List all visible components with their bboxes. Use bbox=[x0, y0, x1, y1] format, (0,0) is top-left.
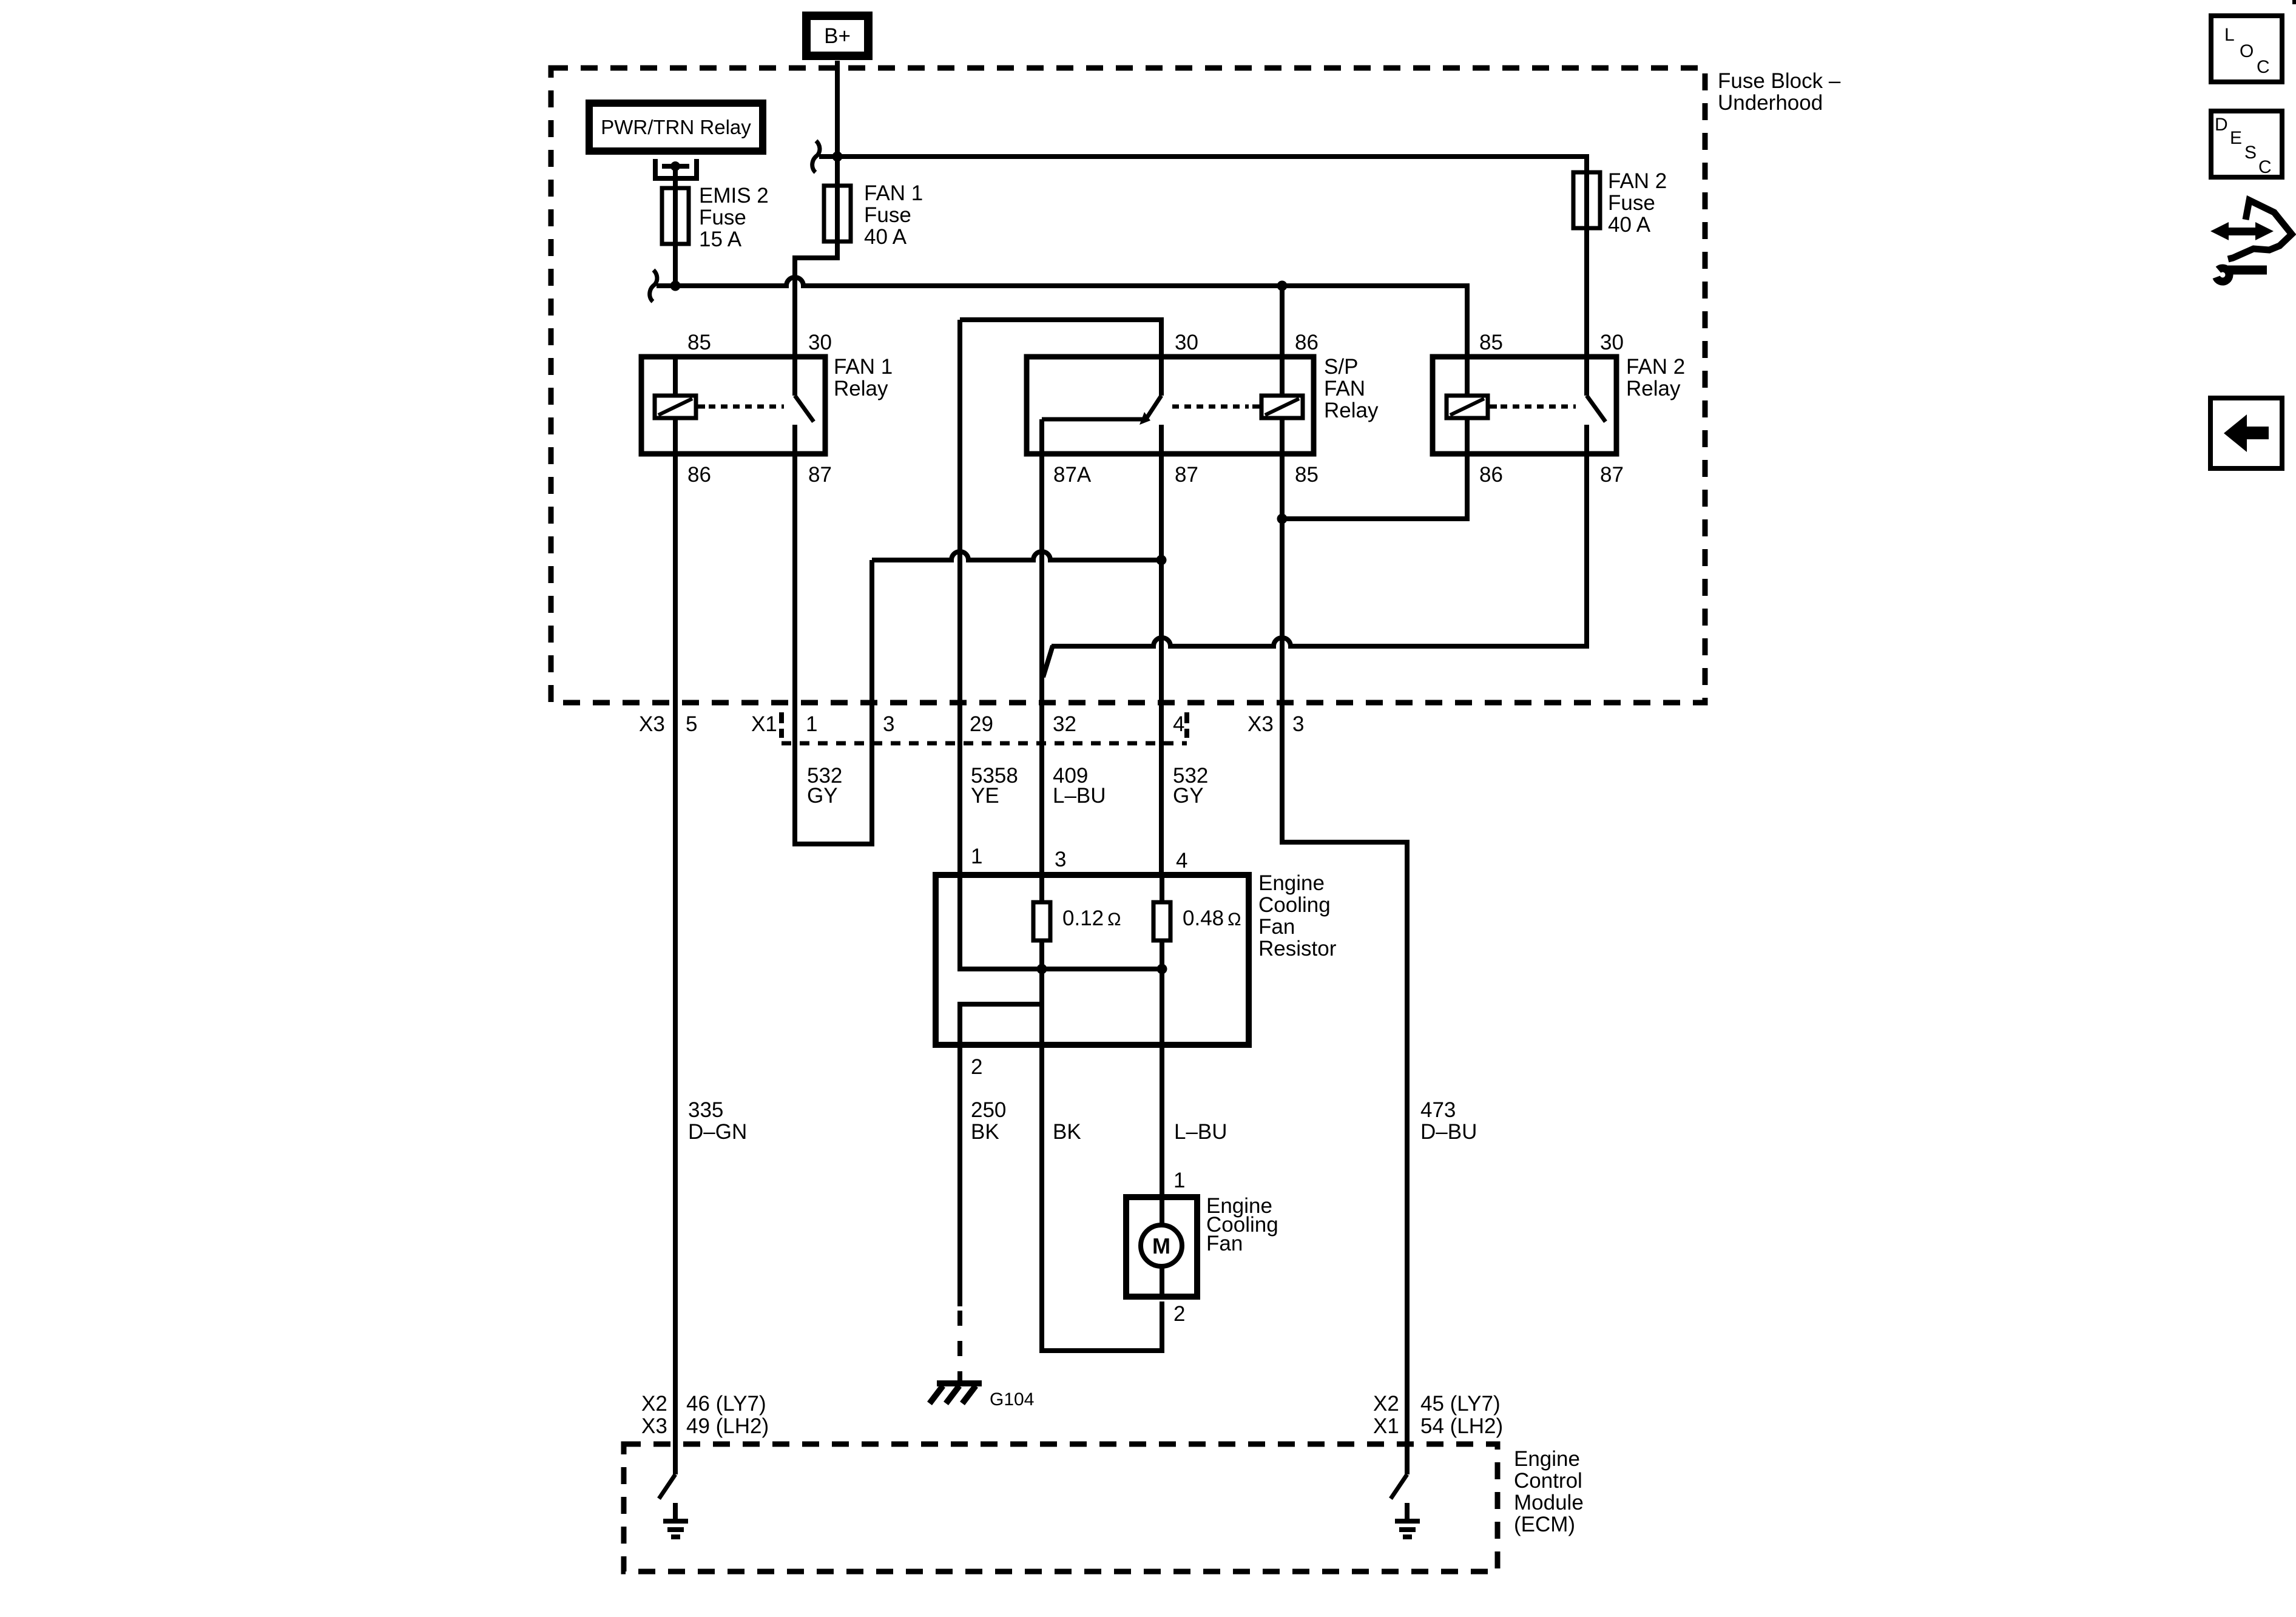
svg-text:87A: 87A bbox=[1053, 463, 1092, 487]
ECM internal switch right bbox=[1391, 1474, 1407, 1499]
label FAN 1 Relay bbox=[834, 355, 893, 400]
svg-text:C: C bbox=[2257, 57, 2270, 77]
pin 30 label S/P FAN relay bbox=[1175, 331, 1198, 354]
wire L-BU resistor pin 4 to fan pin 1 bbox=[1160, 969, 1164, 1224]
pin 1 label resistor bbox=[971, 845, 982, 868]
svg-text:4: 4 bbox=[1176, 849, 1187, 873]
svg-text:Control: Control bbox=[1514, 1469, 1582, 1493]
wire B+ vertical feed bbox=[795, 61, 837, 357]
off-page connector arc at B+ node bbox=[812, 141, 820, 172]
wire S/P 87A / circuit 409 L-BU (pin 32 to resistor pin 3) bbox=[1039, 454, 1044, 875]
wire label 409 L-BU bbox=[1053, 764, 1106, 808]
wire B+ node to FAN 2 fuse bbox=[819, 157, 1587, 357]
relay FAN 1 switch bbox=[795, 357, 814, 454]
relay FAN 1 coil-switch dashed link bbox=[696, 405, 784, 409]
svg-text:1: 1 bbox=[806, 712, 817, 736]
svg-text:3: 3 bbox=[1292, 712, 1304, 736]
label Engine Cooling Fan Resistor bbox=[1258, 871, 1337, 960]
label FAN 2 Relay bbox=[1626, 355, 1685, 400]
page corner mark bbox=[2292, 0, 2296, 4]
svg-text:1: 1 bbox=[1173, 1169, 1185, 1192]
wire label 532 GY (left) bbox=[807, 764, 842, 808]
relay FAN 2 coil bbox=[1447, 357, 1488, 454]
svg-text:X3: X3 bbox=[1248, 712, 1274, 736]
svg-text:30: 30 bbox=[808, 331, 832, 354]
svg-text:(ECM): (ECM) bbox=[1514, 1513, 1575, 1536]
pin 32 label X1 bbox=[1053, 712, 1076, 736]
svg-text:30: 30 bbox=[1175, 331, 1198, 354]
node resistor junction dot pin 4 leg bbox=[1157, 964, 1167, 974]
wire PWR/TRN relay to EMIS 2 fuse to node bbox=[673, 166, 678, 286]
svg-text:D: D bbox=[2215, 115, 2228, 135]
svg-text:FAN 2: FAN 2 bbox=[1608, 169, 1667, 193]
pin 3 label X3 bbox=[1292, 712, 1304, 736]
svg-text:G104: G104 bbox=[990, 1389, 1034, 1409]
pin 86 label FAN 1 relay bbox=[687, 463, 711, 487]
motor M circle bbox=[1141, 1197, 1182, 1297]
pin 87 label FAN 2 relay bbox=[1600, 463, 1624, 487]
connector X1 dashed outline bbox=[782, 712, 1187, 743]
relay FAN 2 coil-switch dashed link bbox=[1488, 405, 1576, 409]
node S/P 87 junction dot bbox=[1156, 555, 1167, 565]
wire S/P FAN relay pin 86 bbox=[1280, 286, 1285, 357]
icon LOC box bbox=[2211, 16, 2282, 82]
svg-text:Fuse Block –: Fuse Block – bbox=[1718, 69, 1841, 93]
node EMIS 2 fuse output dot bbox=[670, 281, 681, 291]
svg-text:2: 2 bbox=[971, 1055, 982, 1079]
svg-text:D–GN: D–GN bbox=[688, 1120, 747, 1144]
ground symbol ECM right bbox=[1395, 1503, 1420, 1537]
svg-text:473: 473 bbox=[1420, 1098, 1456, 1122]
svg-text:4: 4 bbox=[1173, 712, 1184, 736]
off-page connector arc at EMIS 2 node bbox=[650, 270, 657, 302]
fuse EMIS 2 15 A bbox=[662, 184, 769, 251]
icon back arrow box bbox=[2210, 398, 2282, 468]
relay S/P FAN switch with 87A contact bbox=[1042, 357, 1161, 454]
svg-text:Engine: Engine bbox=[1514, 1447, 1580, 1471]
svg-text:BK: BK bbox=[971, 1120, 999, 1144]
wire FAN2 87 horizontal line (hops 532 and X3-3 wires) bbox=[1052, 454, 1587, 646]
PWR/TRN Relay box bbox=[589, 103, 763, 151]
svg-text:X3: X3 bbox=[639, 712, 665, 736]
connector label X1 bbox=[751, 712, 777, 736]
wire EMIS 2 node to FAN 2 relay 85 (hops FAN1-30 wire) bbox=[657, 277, 1467, 357]
svg-text:Fuse: Fuse bbox=[1608, 191, 1655, 215]
node resistor junction dot pin 3 leg bbox=[1037, 964, 1047, 974]
svg-text:250: 250 bbox=[971, 1098, 1006, 1122]
svg-text:2: 2 bbox=[1173, 1302, 1185, 1326]
svg-text:1: 1 bbox=[971, 845, 982, 868]
wire slant branch pin 32 to FAN2 87 line bbox=[1043, 646, 1053, 677]
relay FAN 2 box bbox=[1433, 357, 1616, 454]
svg-text:FAN 1: FAN 1 bbox=[834, 355, 893, 379]
label Engine Cooling Fan bbox=[1206, 1194, 1278, 1255]
wire label 250 BK bbox=[971, 1098, 1006, 1144]
resistor element 0.48 ohm bbox=[1153, 875, 1241, 969]
svg-text:85: 85 bbox=[1479, 331, 1503, 354]
svg-text:M: M bbox=[1152, 1234, 1170, 1258]
pin 85 label FAN 1 relay bbox=[687, 331, 711, 354]
pin 30 label FAN 2 relay bbox=[1600, 331, 1624, 354]
pin 3 label resistor bbox=[1055, 848, 1066, 871]
node S/P FAN relay 86 dot bbox=[1277, 281, 1288, 291]
wire 250 BK resistor pin 2 down bbox=[957, 1045, 962, 1382]
pin 3 label X1 bbox=[883, 712, 894, 736]
fuse FAN 1 40 A bbox=[824, 181, 923, 249]
svg-text:X3: X3 bbox=[641, 1414, 667, 1438]
ground G104 bbox=[930, 1383, 1034, 1409]
svg-text:87: 87 bbox=[1600, 463, 1624, 487]
pin 85 label S/P FAN relay bbox=[1295, 463, 1319, 487]
wire circuit 532 GY horizontal to S/P 87 (hops 29 and 32 wires) bbox=[872, 552, 1161, 560]
Engine Cooling Fan motor box bbox=[1126, 1197, 1197, 1297]
svg-text:3: 3 bbox=[1055, 848, 1066, 871]
svg-text:X2: X2 bbox=[1373, 1392, 1399, 1416]
icon DESC box bbox=[2211, 111, 2282, 177]
svg-text:L–BU: L–BU bbox=[1053, 784, 1106, 808]
resistor internal link to pin 2 bbox=[960, 1004, 1042, 1045]
label S/P FAN Relay bbox=[1324, 355, 1379, 422]
svg-text:86: 86 bbox=[1295, 331, 1319, 354]
svg-text:87: 87 bbox=[1175, 463, 1198, 487]
pin 30 label FAN 1 relay bbox=[808, 331, 832, 354]
svg-text:Fan: Fan bbox=[1258, 915, 1295, 939]
pin 86 label FAN 2 relay bbox=[1479, 463, 1503, 487]
svg-text:X1: X1 bbox=[1373, 1414, 1399, 1438]
power feed B+ box bbox=[806, 16, 868, 56]
svg-text:85: 85 bbox=[1295, 463, 1319, 487]
wire label 532 GY (right) bbox=[1173, 764, 1208, 808]
wire label L-BU bbox=[1174, 1120, 1227, 1144]
wire label 473 D-BU bbox=[1420, 1098, 1477, 1144]
svg-text:32: 32 bbox=[1053, 712, 1076, 736]
pin 2 label resistor bbox=[971, 1055, 982, 1079]
svg-text:Cooling: Cooling bbox=[1258, 893, 1331, 917]
Engine Control Module (ECM) dashed box bbox=[624, 1444, 1497, 1571]
pin 4 label X1 bbox=[1173, 712, 1184, 736]
svg-text:0.48Ω: 0.48Ω bbox=[1183, 906, 1241, 930]
ECM pin labels X2 45 (LY7) / X1 54 (LH2) bbox=[1373, 1392, 1503, 1438]
pin 1 label X1 bbox=[806, 712, 817, 736]
svg-text:YE: YE bbox=[971, 784, 999, 808]
svg-text:BK: BK bbox=[1053, 1120, 1081, 1144]
svg-text:O: O bbox=[2240, 41, 2254, 61]
pin 85 label FAN 2 relay bbox=[1479, 331, 1503, 354]
svg-text:PWR/TRN Relay: PWR/TRN Relay bbox=[601, 116, 751, 138]
wire S/P 30 feed from circuit 5358 node bbox=[960, 320, 1161, 357]
wire 335 D-GN FAN1 86 to ECM bbox=[673, 454, 678, 1474]
svg-text:335: 335 bbox=[688, 1098, 723, 1122]
svg-text:49 (LH2): 49 (LH2) bbox=[686, 1414, 769, 1438]
pin 2 label fan motor bbox=[1173, 1302, 1185, 1326]
svg-text:Fuse: Fuse bbox=[699, 206, 746, 229]
svg-text:C: C bbox=[2258, 157, 2272, 177]
connector bracket below PWR/TRN relay bbox=[655, 159, 697, 178]
pin 87A label S/P FAN relay bbox=[1053, 463, 1092, 487]
svg-text:Module: Module bbox=[1514, 1491, 1584, 1514]
relay S/P FAN coil-switch dashed link bbox=[1172, 405, 1261, 409]
relay S/P FAN box bbox=[1027, 357, 1314, 454]
svg-text:X2: X2 bbox=[641, 1392, 667, 1416]
pin 86 label S/P FAN relay bbox=[1295, 331, 1319, 354]
wire label 5358 YE bbox=[971, 764, 1018, 808]
svg-text:FAN 2: FAN 2 bbox=[1626, 355, 1685, 379]
svg-text:Relay: Relay bbox=[834, 377, 888, 400]
Fuse Block - Underhood dashed box bbox=[551, 68, 1705, 703]
svg-text:FAN 1: FAN 1 bbox=[864, 181, 923, 205]
svg-text:46 (LY7): 46 (LY7) bbox=[686, 1392, 766, 1416]
svg-text:GY: GY bbox=[1173, 784, 1204, 808]
node S/P 85 junction dot bbox=[1277, 514, 1288, 524]
wire S/P 87 / circuit 532 GY to resistor pin 4 bbox=[1159, 454, 1164, 875]
pin 87 label S/P FAN relay bbox=[1175, 463, 1198, 487]
ECM pin labels X2 46 (LY7) / X3 49 (LH2) bbox=[641, 1392, 769, 1438]
wire S/P 85 to X3-3 to ECM (473 D-BU) bbox=[1282, 454, 1407, 1474]
ground symbol ECM left bbox=[663, 1503, 688, 1537]
svg-text:X1: X1 bbox=[751, 712, 777, 736]
svg-text:D–BU: D–BU bbox=[1420, 1120, 1477, 1144]
wire S/P 85 node to FAN2 86 bbox=[1282, 454, 1467, 519]
svg-text:Engine: Engine bbox=[1258, 871, 1325, 895]
svg-text:29: 29 bbox=[970, 712, 993, 736]
icon jump outline bbox=[2228, 200, 2292, 259]
svg-text:E: E bbox=[2230, 128, 2242, 148]
connector label X3 (right) bbox=[1248, 712, 1274, 736]
node B+ junction dot bbox=[832, 152, 843, 162]
svg-text:5: 5 bbox=[686, 712, 697, 736]
svg-text:Fan: Fan bbox=[1206, 1232, 1243, 1255]
svg-text:Fuse: Fuse bbox=[864, 203, 911, 227]
resistor element 0.12 ohm bbox=[1033, 875, 1121, 969]
resistor internal bus pin 1 bbox=[960, 875, 1162, 969]
svg-text:L: L bbox=[2224, 25, 2235, 45]
svg-text:45 (LY7): 45 (LY7) bbox=[1420, 1392, 1501, 1416]
wire BK resistor pin 3 leg to fan pin 2 bbox=[1042, 969, 1162, 1351]
icon wrench bbox=[2217, 268, 2267, 282]
pin 1 label fan motor bbox=[1173, 1169, 1185, 1192]
svg-text:S/P: S/P bbox=[1324, 355, 1358, 379]
fuse FAN 2 40 A bbox=[1573, 169, 1667, 237]
svg-text:87: 87 bbox=[808, 463, 832, 487]
svg-text:Resistor: Resistor bbox=[1258, 937, 1337, 960]
relay FAN 1 coil bbox=[655, 357, 696, 454]
svg-text:B+: B+ bbox=[824, 24, 851, 48]
svg-text:54 (LH2): 54 (LH2) bbox=[1420, 1414, 1503, 1438]
label Engine Control Module (ECM) bbox=[1514, 1447, 1584, 1536]
label Fuse Block - Underhood bbox=[1718, 69, 1841, 115]
svg-text:Underhood: Underhood bbox=[1718, 91, 1823, 115]
svg-text:85: 85 bbox=[687, 331, 711, 354]
relay S/P FAN coil bbox=[1261, 357, 1303, 454]
relay FAN 2 switch bbox=[1587, 357, 1606, 454]
icon double arrow bbox=[2210, 222, 2274, 240]
svg-text:EMIS 2: EMIS 2 bbox=[699, 184, 769, 208]
pin 4 label resistor bbox=[1176, 849, 1187, 873]
svg-text:40 A: 40 A bbox=[1608, 213, 1651, 237]
wire FAN1 87 to X1-1 and jumper to X1-3 bbox=[795, 454, 872, 844]
svg-text:Relay: Relay bbox=[1324, 399, 1379, 422]
svg-text:30: 30 bbox=[1600, 331, 1624, 354]
wire label 335 D-GN bbox=[688, 1098, 747, 1144]
Engine Cooling Fan Resistor box bbox=[936, 875, 1249, 1045]
wire label BK bbox=[1053, 1120, 1081, 1144]
svg-text:86: 86 bbox=[1479, 463, 1503, 487]
svg-text:86: 86 bbox=[687, 463, 711, 487]
svg-text:FAN: FAN bbox=[1324, 377, 1365, 400]
relay FAN 1 box bbox=[641, 357, 825, 454]
svg-text:GY: GY bbox=[807, 784, 838, 808]
pin 29 label X1 bbox=[970, 712, 993, 736]
wire circuit 5358 YE vertical (pin 29 to resistor pin 1) bbox=[957, 320, 962, 875]
svg-text:15 A: 15 A bbox=[699, 228, 742, 251]
svg-text:Relay: Relay bbox=[1626, 377, 1681, 400]
svg-text:S: S bbox=[2244, 143, 2257, 163]
pin 5 label bbox=[686, 712, 697, 736]
connector label X3 (left) bbox=[639, 712, 665, 736]
svg-text:L–BU: L–BU bbox=[1174, 1120, 1227, 1144]
svg-text:0.12Ω: 0.12Ω bbox=[1062, 906, 1121, 930]
svg-text:40 A: 40 A bbox=[864, 225, 907, 249]
pin 87 label FAN 1 relay bbox=[808, 463, 832, 487]
svg-text:3: 3 bbox=[883, 712, 894, 736]
ECM internal switch left bbox=[659, 1474, 675, 1499]
